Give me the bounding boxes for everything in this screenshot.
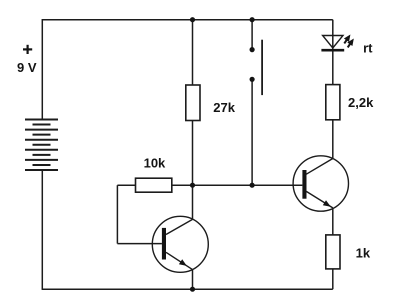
transistor Q1 base bar: [162, 228, 166, 260]
LED D1 light arrow 2: [347, 39, 354, 48]
node junction bottom rail at Q1 emitter: [190, 287, 195, 292]
transistor Q2 emitter arrowhead: [323, 200, 331, 207]
switch S1 pushbutton lower contact: [250, 77, 255, 82]
wire 27k column from top rail: [192, 20, 194, 85]
resistor R1 27k: [186, 85, 200, 121]
transistor Q1 circle: [152, 216, 208, 272]
svg-text:10k: 10k: [144, 155, 166, 170]
transistor Q1 emitter diagonal: [166, 252, 193, 269]
switch S1 actuator bar: [261, 40, 263, 95]
LED D1 cathode bar: [321, 49, 344, 52]
svg-text:27k: 27k: [213, 100, 235, 115]
wire 2.2k to Q2 collector: [332, 120, 334, 159]
transistor Q1 collector diagonal: [166, 219, 193, 234]
wire switch upper from top rail: [251, 20, 253, 50]
node junction base net at 27k column: [190, 183, 195, 188]
label battery plus sign: [23, 45, 32, 54]
wire 27k bottom to Q1 collector node: [192, 121, 194, 220]
resistor R3 10k: [136, 178, 172, 192]
transistor Q2 base bar: [302, 170, 306, 199]
node junction top rail at switch column: [250, 17, 255, 22]
wire Q2 emitter to 1k: [332, 208, 334, 235]
wire bottom rail (0V net): [42, 288, 333, 290]
wire Q1 emitter to bottom rail: [192, 270, 194, 290]
wire 1k to bottom rail: [332, 269, 334, 289]
svg-text:9 V: 9 V: [17, 60, 37, 75]
transistor Q1 emitter arrowhead: [179, 259, 187, 266]
LED D1 triangle: [323, 36, 343, 49]
switch S1 pushbutton upper contact: [250, 47, 255, 52]
node junction top rail at 27k column: [190, 17, 195, 22]
resistor R2 2,2k: [326, 85, 340, 120]
transistor Q2 circle: [293, 156, 348, 211]
wire base net 10k to Q2 base: [172, 184, 303, 186]
wire LED cathode to 2.2k: [332, 50, 334, 84]
wire left rail battery minus to bottom: [41, 170, 43, 289]
node junction base net at switch column: [250, 183, 255, 188]
transistor Q2 collector diagonal: [306, 159, 333, 175]
wire left rail to battery plus: [41, 19, 43, 120]
svg-text:1k: 1k: [356, 246, 371, 261]
wire top rail (+9V net): [42, 19, 333, 21]
LED D1 light arrow 1: [344, 35, 351, 44]
wire feedback vertical: [116, 185, 118, 243]
wire feedback 10k left terminal: [117, 184, 135, 186]
battery B1 9V: [25, 120, 58, 171]
svg-text:2,2k: 2,2k: [348, 95, 374, 110]
wire Q1 base horizontal: [117, 243, 161, 245]
resistor R4 1k: [326, 235, 340, 269]
transistor Q2 emitter diagonal: [306, 191, 333, 208]
wire switch lower contact down to base net: [251, 79, 253, 185]
wire top rail corner down to LED anode through triangle: [332, 20, 334, 51]
svg-text:rt: rt: [363, 40, 373, 55]
